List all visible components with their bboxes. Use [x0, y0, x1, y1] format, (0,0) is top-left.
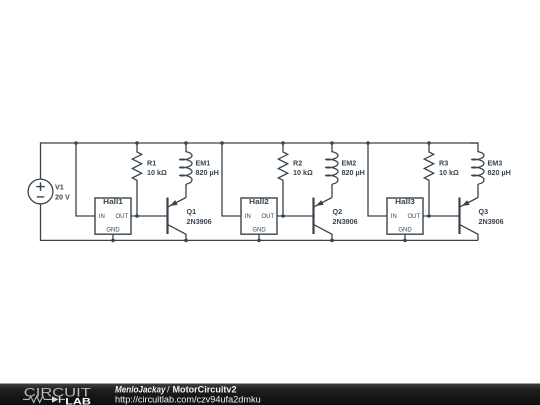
Hall sensor Hall3 box [387, 198, 423, 234]
svg-text:IN: IN [245, 214, 251, 220]
svg-text:Hall2: Hall2 [249, 197, 269, 206]
wire EM2 top lead [331, 143, 333, 151]
svg-text:Q3: Q3 [479, 207, 489, 216]
junction Q2 collector / bottom rail [330, 239, 334, 243]
junction top rail / R1 [135, 141, 139, 145]
svg-text:10 kΩ: 10 kΩ [147, 168, 167, 177]
transistor Q2 emitter arrow (PNP) [316, 200, 324, 206]
wire Hall2 GND to bottom rail [258, 234, 260, 240]
junction top rail / Hall3 IN wire [366, 141, 370, 145]
wire EM1 top lead [185, 143, 187, 151]
resistor R2 [278, 143, 287, 216]
transistor Q3 base bar [458, 198, 460, 235]
svg-text:R2: R2 [293, 159, 302, 168]
transistor Q1 emitter [168, 198, 186, 207]
wire Hall2 OUT to Q2 base [277, 215, 314, 217]
CircuitLab logo resistor squiggle [23, 396, 52, 402]
junction top rail / EM1 [184, 141, 188, 145]
svg-text:EM1: EM1 [196, 159, 211, 168]
inductor EM2 coil [326, 151, 338, 185]
transistor Q3 emitter arrow (PNP) [462, 200, 470, 206]
svg-text:820 µH: 820 µH [196, 168, 219, 177]
wire top power rail [41, 142, 479, 144]
svg-text:GND: GND [106, 227, 120, 233]
junction Hall3 GND / bottom rail [403, 239, 407, 243]
wire Hall3 OUT to Q3 base [423, 215, 460, 217]
svg-text:http://circuitlab.com/czv94ufa: http://circuitlab.com/czv94ufa2dmku [115, 394, 261, 404]
resistor R3 [424, 143, 433, 216]
transistor Q3 emitter [460, 198, 478, 207]
wire from top rail to Hall2 IN [222, 143, 241, 216]
svg-text:IN: IN [391, 214, 397, 220]
svg-text:GND: GND [252, 227, 266, 233]
wire top rail corner into EM3 top lead [470, 143, 478, 151]
wire EM1 bottom lead to Q1 emitter [185, 184, 187, 198]
svg-text:10 kΩ: 10 kΩ [439, 168, 459, 177]
junction Hall1 GND / bottom rail [111, 239, 115, 243]
svg-text:Q1: Q1 [187, 207, 197, 216]
inductor EM3 coil [472, 151, 484, 185]
voltage source V1 [28, 179, 53, 204]
transistor Q2 emitter [314, 198, 332, 207]
junction top rail / R2 [281, 141, 285, 145]
svg-text:GND: GND [398, 227, 412, 233]
svg-text:R3: R3 [439, 159, 448, 168]
junction Q1 collector / bottom rail [184, 239, 188, 243]
Hall sensor Hall1 box [95, 198, 131, 234]
wire EM3 bottom lead to Q3 emitter [477, 184, 479, 198]
svg-text:MenloJackay: MenloJackay [115, 385, 166, 395]
svg-text:EM2: EM2 [342, 159, 357, 168]
svg-text:OUT: OUT [116, 214, 129, 220]
svg-text:2N3906: 2N3906 [187, 217, 212, 226]
svg-text:Hall1: Hall1 [103, 197, 123, 206]
svg-text:OUT: OUT [408, 214, 421, 220]
svg-text:820 µH: 820 µH [342, 168, 365, 177]
svg-text:LAB: LAB [65, 396, 91, 405]
transistor Q1 collector [168, 225, 186, 241]
svg-text:V1: V1 [55, 183, 64, 192]
junction top rail / R3 [427, 141, 431, 145]
wire Hall1 GND to bottom rail [112, 234, 114, 240]
svg-text:2N3906: 2N3906 [479, 217, 504, 226]
svg-text:R1: R1 [147, 159, 156, 168]
svg-text:2N3906: 2N3906 [333, 217, 358, 226]
transistor Q1 emitter arrow (PNP) [170, 200, 178, 206]
junction top rail / Hall2 IN wire [220, 141, 224, 145]
svg-text:MotorCircuitv2: MotorCircuitv2 [173, 385, 237, 395]
svg-text:IN: IN [99, 214, 105, 220]
junction R3 bottom / base wire [427, 214, 431, 218]
wire EM2 bottom lead to Q2 emitter [331, 184, 333, 198]
Hall sensor Hall2 box [241, 198, 277, 234]
wire V1 top lead [40, 142, 42, 179]
svg-text:Hall3: Hall3 [395, 197, 415, 206]
wire Hall3 GND to bottom rail [404, 234, 406, 240]
wire from top rail to Hall1 IN [76, 143, 95, 216]
inductor EM1 coil [180, 151, 192, 185]
junction Hall2 GND / bottom rail [257, 239, 261, 243]
svg-text:Q2: Q2 [333, 207, 343, 216]
transistor Q2 base bar [312, 198, 314, 235]
svg-text:820 µH: 820 µH [488, 168, 511, 177]
transistor Q1 base bar [166, 198, 168, 235]
transistor Q3 collector [460, 225, 478, 241]
wire Hall1 OUT to Q1 base [131, 215, 168, 217]
svg-text:EM3: EM3 [488, 159, 503, 168]
junction R1 bottom / base wire [135, 214, 139, 218]
svg-text:20 V: 20 V [55, 193, 70, 202]
wire V1 bottom lead [40, 204, 42, 241]
junction top rail / Hall1 IN wire [74, 141, 78, 145]
svg-text:10 kΩ: 10 kΩ [293, 168, 313, 177]
resistor R1 [132, 143, 141, 216]
footer bar [0, 384, 540, 405]
junction top rail / EM2 [330, 141, 334, 145]
CircuitLab logo diode symbol [52, 396, 59, 403]
wire bottom ground rail [41, 239, 479, 241]
junction R2 bottom / base wire [281, 214, 285, 218]
CircuitLab logo wire after diode [60, 398, 65, 400]
wire from top rail to Hall3 IN [368, 143, 387, 216]
svg-text:OUT: OUT [262, 214, 275, 220]
transistor Q2 collector [314, 225, 332, 241]
